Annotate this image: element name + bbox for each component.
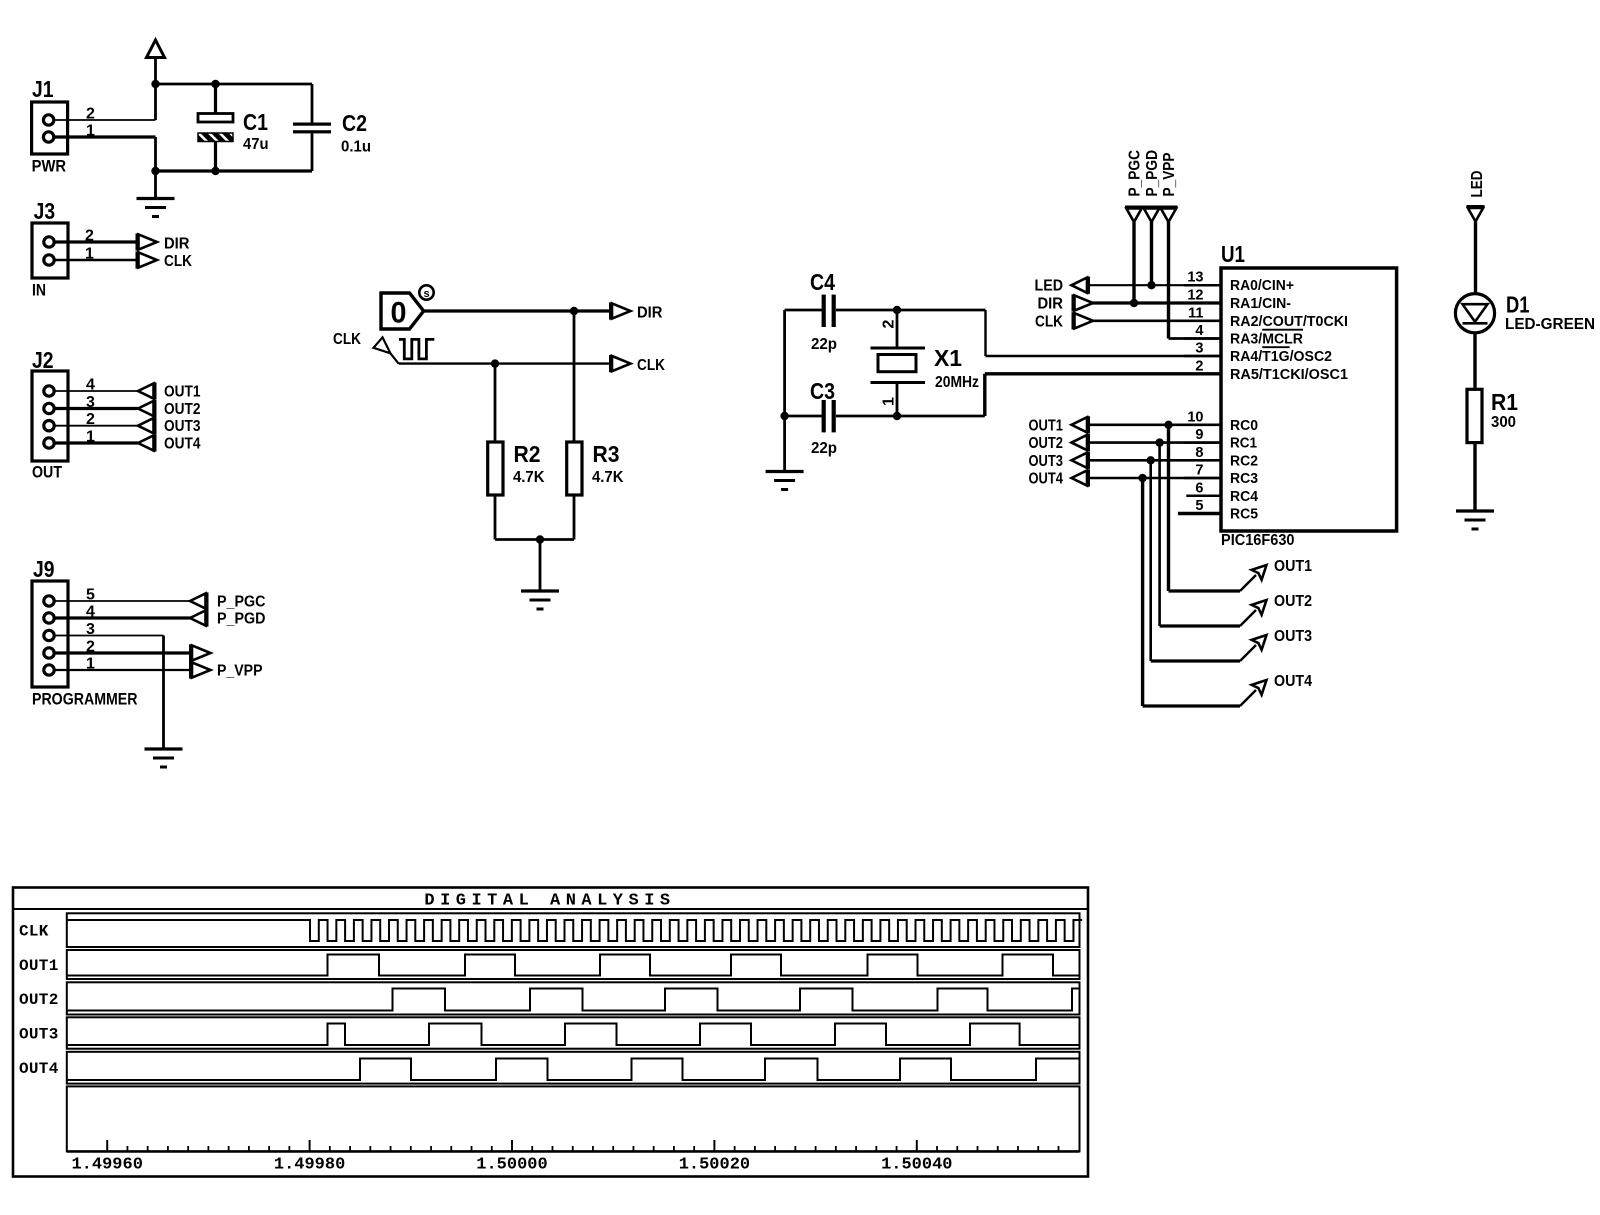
svg-text:P_PGC: P_PGC xyxy=(217,594,266,611)
svg-text:OUT4: OUT4 xyxy=(164,436,201,453)
svg-text:1.49960: 1.49960 xyxy=(71,1156,142,1175)
svg-text:C3: C3 xyxy=(810,378,835,404)
svg-text:DIGITAL ANALYSIS: DIGITAL ANALYSIS xyxy=(424,892,675,911)
svg-text:2: 2 xyxy=(881,320,898,329)
svg-text:RA1/CIN-: RA1/CIN- xyxy=(1230,296,1291,312)
svg-text:3: 3 xyxy=(1195,341,1203,357)
svg-text:12: 12 xyxy=(1187,288,1203,304)
svg-text:8: 8 xyxy=(1195,445,1203,461)
svg-text:10: 10 xyxy=(1187,409,1203,425)
svg-text:OUT4: OUT4 xyxy=(1274,673,1312,690)
svg-text:0: 0 xyxy=(391,297,407,330)
svg-text:4.7K: 4.7K xyxy=(592,469,624,486)
svg-text:OUT2: OUT2 xyxy=(164,401,201,418)
svg-text:LED-GREEN: LED-GREEN xyxy=(1505,316,1595,333)
svg-text:300: 300 xyxy=(1491,414,1516,431)
svg-text:OUT3: OUT3 xyxy=(1274,628,1312,645)
svg-text:R1: R1 xyxy=(1491,389,1518,415)
svg-text:CLK: CLK xyxy=(19,923,49,941)
svg-text:CLK: CLK xyxy=(1035,313,1063,330)
svg-text:J9: J9 xyxy=(33,556,55,582)
svg-text:2: 2 xyxy=(1195,358,1203,374)
svg-text:RC2: RC2 xyxy=(1230,453,1258,469)
svg-text:CLK: CLK xyxy=(164,253,192,270)
svg-text:7: 7 xyxy=(1195,463,1203,479)
svg-text:PROGRAMMER: PROGRAMMER xyxy=(32,690,138,709)
svg-text:6: 6 xyxy=(1195,480,1203,496)
svg-text:OUT: OUT xyxy=(32,463,63,482)
svg-text:C2: C2 xyxy=(342,110,367,136)
svg-text:RA0/CIN+: RA0/CIN+ xyxy=(1230,278,1294,294)
svg-text:OUT2: OUT2 xyxy=(19,991,59,1009)
svg-text:9: 9 xyxy=(1195,427,1203,443)
svg-text:C4: C4 xyxy=(810,269,835,295)
svg-text:PWR: PWR xyxy=(32,157,67,176)
svg-text:P_PGD: P_PGD xyxy=(217,611,266,628)
svg-text:DIR: DIR xyxy=(637,305,663,322)
svg-text:LED: LED xyxy=(1035,278,1064,295)
svg-text:D1: D1 xyxy=(1506,292,1530,318)
svg-text:13: 13 xyxy=(1187,270,1203,286)
svg-text:RA2/COUT/T0CKI: RA2/COUT/T0CKI xyxy=(1230,314,1348,330)
svg-text:OUT3: OUT3 xyxy=(19,1026,59,1044)
svg-text:OUT1: OUT1 xyxy=(1274,558,1312,575)
svg-text:5: 5 xyxy=(1195,498,1203,514)
svg-text:1.50000: 1.50000 xyxy=(476,1156,547,1175)
svg-text:R2: R2 xyxy=(514,441,541,467)
svg-text:OUT2: OUT2 xyxy=(1274,593,1312,610)
svg-text:LED: LED xyxy=(1469,171,1486,198)
svg-text:0.1u: 0.1u xyxy=(341,139,371,156)
svg-text:4.7K: 4.7K xyxy=(513,469,545,486)
svg-text:DIR: DIR xyxy=(1038,296,1064,313)
svg-text:47u: 47u xyxy=(243,136,269,153)
svg-text:RA5/T1CKI/OSC1: RA5/T1CKI/OSC1 xyxy=(1230,367,1348,383)
svg-text:CLK: CLK xyxy=(333,331,361,348)
svg-text:P_VPP: P_VPP xyxy=(1161,153,1178,197)
svg-text:1.50040: 1.50040 xyxy=(881,1156,952,1175)
svg-text:OUT1: OUT1 xyxy=(164,384,201,401)
svg-text:DIR: DIR xyxy=(164,236,190,253)
svg-text:s: s xyxy=(423,288,429,300)
svg-text:P_PGD: P_PGD xyxy=(1144,150,1161,197)
svg-text:J3: J3 xyxy=(34,198,56,224)
svg-text:4: 4 xyxy=(1195,323,1203,339)
svg-text:RC3: RC3 xyxy=(1230,471,1258,487)
svg-text:P_VPP: P_VPP xyxy=(217,663,263,680)
svg-text:OUT3: OUT3 xyxy=(164,418,201,435)
svg-text:20MHz: 20MHz xyxy=(935,374,979,391)
svg-text:OUT4: OUT4 xyxy=(1029,471,1064,488)
svg-text:22p: 22p xyxy=(811,440,837,457)
svg-text:OUT4: OUT4 xyxy=(19,1060,59,1078)
svg-text:CLK: CLK xyxy=(637,357,665,374)
svg-text:R3: R3 xyxy=(593,441,620,467)
svg-text:J1: J1 xyxy=(32,76,54,102)
svg-text:U1: U1 xyxy=(1221,241,1245,267)
svg-text:RC5: RC5 xyxy=(1230,507,1258,523)
svg-text:22p: 22p xyxy=(811,336,837,353)
svg-text:OUT2: OUT2 xyxy=(1029,435,1064,452)
svg-text:C1: C1 xyxy=(243,109,268,135)
svg-text:OUT3: OUT3 xyxy=(1029,453,1064,470)
svg-text:11: 11 xyxy=(1188,305,1203,321)
svg-text:X1: X1 xyxy=(934,345,962,371)
svg-text:RC4: RC4 xyxy=(1230,489,1258,505)
svg-text:P_PGC: P_PGC xyxy=(1127,150,1144,197)
svg-text:IN: IN xyxy=(32,281,46,300)
svg-text:PIC16F630: PIC16F630 xyxy=(1221,532,1295,549)
svg-text:RC0: RC0 xyxy=(1230,418,1258,434)
svg-text:J2: J2 xyxy=(32,347,54,373)
svg-text:1.49980: 1.49980 xyxy=(274,1156,345,1175)
svg-text:OUT1: OUT1 xyxy=(19,957,59,975)
svg-text:RC1: RC1 xyxy=(1230,436,1257,452)
svg-text:1: 1 xyxy=(881,397,898,406)
svg-text:1.50020: 1.50020 xyxy=(679,1156,750,1175)
svg-text:OUT1: OUT1 xyxy=(1029,417,1064,434)
svg-text:RA3/MCLR: RA3/MCLR xyxy=(1230,332,1304,348)
svg-text:RA4/T1G/OSC2: RA4/T1G/OSC2 xyxy=(1230,349,1332,365)
